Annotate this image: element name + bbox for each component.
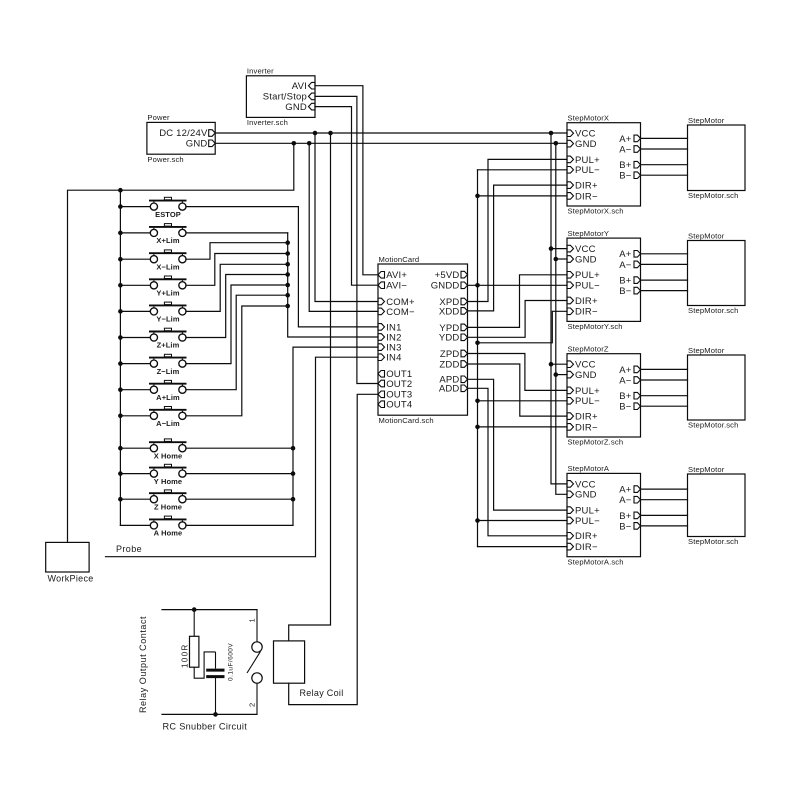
switch A−Lim	[149, 407, 187, 429]
svg-text:DIR+: DIR+	[575, 531, 598, 542]
svg-text:StepMotorZ: StepMotorZ	[568, 345, 609, 354]
svg-text:Power.sch: Power.sch	[147, 155, 183, 164]
sheet block StepMotor(A)	[688, 465, 746, 546]
sheet StepMotorX pin A−	[619, 144, 640, 155]
svg-text:DIR−: DIR−	[575, 542, 598, 553]
wire limit switches staircase to IN2	[186, 233, 378, 416]
wire Power GND rail	[215, 141, 567, 146]
svg-text:Y Home: Y Home	[154, 477, 182, 486]
capacitor 0.1uF/600V	[206, 643, 234, 715]
svg-text:StepMotorA.sch: StepMotorA.sch	[568, 557, 624, 566]
switch X+Lim	[149, 224, 187, 246]
sheet MotionCard pin COM+	[378, 297, 415, 308]
wire ZDD to Z DIR+	[468, 364, 568, 416]
svg-text:Y−Lim: Y−Lim	[156, 315, 179, 324]
sheet StepMotorZ pin PUL+	[567, 386, 600, 397]
sheet StepMotorX pin DIR−	[567, 191, 598, 202]
sheet MotionCard pin XPD	[439, 297, 467, 308]
sheet StepMotorZ pin B+	[619, 391, 640, 402]
svg-text:StepMotor: StepMotor	[688, 465, 725, 474]
switch X Home	[149, 439, 187, 461]
sheet Power pin DC 12/24V	[159, 128, 215, 139]
svg-text:DIR−: DIR−	[575, 191, 598, 202]
sheet MotionCard pin XDD	[439, 306, 468, 317]
sheet Inverter pin AVI	[292, 81, 315, 92]
svg-text:PUL−: PUL−	[575, 281, 600, 292]
wire StepMotorX phase wires A+/A-/B+/B-	[641, 138, 688, 175]
resistor 100R	[181, 610, 216, 679]
svg-text:X Home: X Home	[154, 451, 183, 460]
wire 12/24V to Relay Coil +	[289, 133, 331, 641]
svg-text:RC Snubber Circuit: RC Snubber Circuit	[163, 722, 248, 732]
sheet StepMotorZ pin A+	[619, 365, 640, 376]
svg-text:A+: A+	[619, 249, 632, 260]
sheet MotionCard pin OUT3	[378, 390, 412, 401]
sheet StepMotorA pin GND	[567, 490, 597, 501]
wire ESTOP to IN1	[186, 207, 378, 327]
sheet MotionCard pin IN1	[378, 322, 402, 333]
svg-text:PUL+: PUL+	[575, 270, 600, 281]
svg-text:X−Lim: X−Lim	[156, 262, 179, 271]
wire Relay Coil - to OUT3	[289, 394, 378, 704]
svg-text:PUL−: PUL−	[575, 516, 600, 527]
svg-text:DIR+: DIR+	[575, 412, 598, 423]
sheet StepMotorY pin PUL+	[567, 270, 600, 281]
wire COM- feed from GND	[309, 143, 378, 311]
svg-text:StepMotor: StepMotor	[688, 346, 725, 355]
svg-text:A−: A−	[619, 260, 632, 271]
svg-text:Probe: Probe	[116, 544, 142, 554]
svg-text:+5VD: +5VD	[435, 270, 460, 281]
sheet StepMotorZ pin VCC	[567, 360, 596, 371]
switch Y+Lim	[149, 276, 187, 298]
svg-text:VCC: VCC	[575, 479, 596, 490]
wire snubber bottom rail	[162, 712, 257, 717]
wire Probe to IN4	[106, 357, 379, 557]
sheet block StepMotorA	[567, 464, 641, 566]
sheet MotionCard pin ZDD	[439, 359, 467, 370]
svg-text:StepMotor.sch: StepMotor.sch	[688, 306, 739, 315]
sheet StepMotorX pin GND	[567, 139, 597, 150]
svg-text:B+: B+	[619, 391, 632, 402]
svg-text:StepMotorY.sch: StepMotorY.sch	[568, 322, 623, 331]
svg-text:AVI+: AVI+	[386, 270, 407, 281]
wire Inverter GND to MotionCard AVI-	[315, 107, 378, 286]
svg-text:GND: GND	[186, 139, 208, 150]
svg-text:ESTOP: ESTOP	[155, 210, 181, 219]
svg-text:PUL−: PUL−	[575, 165, 600, 176]
sheet StepMotorX pin DIR+	[567, 181, 598, 192]
svg-text:Z Home: Z Home	[154, 502, 182, 511]
wire StepMotorZ phase wires A+/A-/B+/B-	[641, 369, 688, 406]
svg-text:Inverter.sch: Inverter.sch	[247, 118, 288, 127]
sheet StepMotorA pin B+	[619, 511, 640, 522]
svg-text:ADD: ADD	[439, 384, 460, 395]
sheet StepMotorZ pin DIR−	[567, 422, 598, 433]
svg-text:GND: GND	[575, 254, 597, 265]
svg-text:AVI: AVI	[292, 81, 307, 92]
wire YPD to Y PUL+	[468, 275, 568, 328]
svg-text:StepMotorX: StepMotorX	[568, 114, 610, 123]
svg-text:A+: A+	[619, 365, 632, 376]
svg-text:VCC: VCC	[575, 360, 596, 371]
svg-text:A+: A+	[619, 485, 632, 496]
sheet StepMotorX pin VCC	[567, 129, 596, 140]
svg-text:StepMotor.sch: StepMotor.sch	[688, 537, 739, 546]
svg-text:1: 1	[248, 618, 257, 622]
sheet StepMotorA pin PUL−	[567, 516, 600, 527]
svg-text:GND: GND	[285, 102, 307, 113]
svg-text:WorkPiece: WorkPiece	[48, 574, 94, 584]
svg-text:Inverter: Inverter	[247, 67, 274, 76]
svg-text:ZPD: ZPD	[440, 349, 460, 360]
svg-text:PUL+: PUL+	[575, 506, 600, 517]
sheet StepMotorY pin B+	[619, 276, 640, 287]
svg-text:0.1uF/600V: 0.1uF/600V	[228, 643, 235, 681]
sheet MotionCard pin IN3	[378, 343, 402, 354]
svg-text:X+Lim: X+Lim	[156, 236, 179, 245]
sheet Inverter pin GND	[285, 102, 315, 113]
svg-text:2: 2	[248, 703, 257, 707]
sheet MotionCard pin APD	[439, 375, 467, 386]
sheet StepMotorZ pin B−	[619, 402, 640, 413]
sheet block StepMotor(X)	[688, 116, 746, 200]
sheet MotionCard pin GNDD	[431, 281, 468, 292]
svg-text:COM−: COM−	[386, 307, 415, 318]
wire XDD to X DIR+	[468, 185, 568, 311]
svg-text:B−: B−	[619, 402, 632, 413]
sheet MotionCard pin OUT2	[378, 379, 412, 390]
svg-text:DIR−: DIR−	[575, 307, 598, 318]
wire XPD to X PUL+	[468, 159, 568, 301]
sheet block StepMotorY	[567, 229, 641, 331]
svg-text:Z+Lim: Z+Lim	[157, 341, 180, 350]
svg-text:StepMotorA: StepMotorA	[568, 464, 610, 473]
wire StepMotorY phase wires A+/A-/B+/B-	[641, 254, 688, 291]
wire ADD to A DIR+	[468, 388, 568, 536]
relay coil K1	[274, 641, 344, 698]
sheet StepMotorY pin PUL−	[567, 281, 600, 292]
svg-text:A−: A−	[619, 495, 632, 506]
svg-text:PUL−: PUL−	[575, 396, 600, 407]
wire GND to switch bus / WorkPiece	[68, 143, 294, 542]
sheet StepMotorY pin A−	[619, 260, 640, 271]
svg-text:StepMotor.sch: StepMotor.sch	[688, 191, 739, 200]
switch Z Home	[149, 490, 187, 512]
svg-text:GND: GND	[575, 139, 597, 150]
sheet StepMotorX pin PUL+	[567, 155, 600, 166]
svg-text:OUT2: OUT2	[386, 379, 412, 390]
switch Z+Lim	[149, 328, 187, 350]
sheet StepMotorY pin GND	[567, 254, 597, 265]
sheet StepMotorZ pin GND	[567, 370, 597, 381]
sheet StepMotorX pin B−	[619, 171, 640, 182]
sheet StepMotorA pin A+	[619, 485, 640, 496]
wire switch common bus	[118, 190, 123, 525]
svg-text:StepMotorX.sch: StepMotorX.sch	[568, 207, 624, 216]
sheet StepMotorA pin PUL+	[567, 506, 600, 517]
svg-text:B−: B−	[619, 286, 632, 297]
sheet block StepMotorX	[567, 114, 641, 216]
wire GNDD common-cathode net	[468, 170, 568, 547]
svg-text:VCC: VCC	[575, 244, 596, 255]
svg-text:DIR+: DIR+	[575, 181, 598, 192]
svg-text:GNDD: GNDD	[431, 281, 460, 292]
sheet StepMotorY pin A+	[619, 249, 640, 260]
svg-text:A−: A−	[619, 144, 632, 155]
svg-text:StepMotor.sch: StepMotor.sch	[688, 421, 739, 430]
svg-text:OUT4: OUT4	[386, 400, 412, 411]
switch X−Lim	[149, 250, 187, 272]
sheet block StepMotor(Z)	[688, 346, 746, 430]
svg-text:DIR−: DIR−	[575, 422, 598, 433]
sheet StepMotorX pin A+	[619, 134, 640, 145]
relay output contact SW	[247, 610, 262, 715]
sheet StepMotorY pin DIR+	[567, 296, 598, 307]
sheet MotionCard pin ADD	[439, 384, 468, 395]
svg-text:B−: B−	[619, 521, 632, 532]
svg-text:A+: A+	[619, 134, 632, 145]
svg-text:B−: B−	[619, 171, 632, 182]
wire YDD to Y DIR+	[468, 301, 568, 338]
sheet block Inverter	[246, 67, 315, 127]
sheet Inverter pin Start/Stop	[263, 92, 315, 103]
sheet MotionCard pin YDD	[439, 333, 468, 344]
svg-text:B+: B+	[619, 160, 632, 171]
svg-text:AVI−: AVI−	[386, 281, 407, 292]
svg-text:PUL+: PUL+	[575, 155, 600, 166]
WorkPiece block	[46, 542, 94, 583]
svg-text:StepMotorZ.sch: StepMotorZ.sch	[568, 438, 624, 447]
sheet MotionCard pin OUT1	[378, 369, 412, 380]
wire COM+ feed from 12/24V	[315, 133, 378, 302]
svg-text:Y+Lim: Y+Lim	[156, 289, 179, 298]
wire snubber top rail	[162, 607, 257, 612]
svg-text:DIR+: DIR+	[575, 296, 598, 307]
svg-text:YDD: YDD	[439, 333, 460, 344]
svg-text:StepMotorY: StepMotorY	[568, 229, 610, 238]
svg-text:A Home: A Home	[154, 529, 183, 538]
sheet StepMotorZ pin A−	[619, 375, 640, 386]
wire switch input stubs	[120, 207, 150, 526]
sheet StepMotorZ pin PUL−	[567, 396, 600, 407]
wire Inverter Start/Stop to MotionCard OUT2	[315, 96, 378, 383]
svg-text:StepMotor: StepMotor	[688, 116, 725, 125]
sheet block StepMotor(Y)	[688, 231, 746, 315]
svg-text:A−Lim: A−Lim	[156, 419, 180, 428]
sheet MotionCard pin AVI+	[378, 270, 407, 281]
svg-text:StepMotor: StepMotor	[688, 231, 725, 240]
svg-text:PUL+: PUL+	[575, 386, 600, 397]
wire Inverter AVI to MotionCard AVI+	[315, 86, 378, 275]
switch Z−Lim	[149, 354, 187, 376]
sheet StepMotorA pin DIR−	[567, 542, 598, 553]
wire DC 12/24V rail	[215, 131, 567, 136]
switch A Home	[149, 516, 187, 538]
sheet StepMotorZ pin DIR+	[567, 412, 598, 423]
sheet MotionCard pin YPD	[439, 323, 467, 334]
sheet MotionCard pin IN4	[378, 353, 402, 364]
sheet StepMotorX pin B+	[619, 160, 640, 171]
wire ZPD to Z PUL+	[468, 354, 568, 391]
switch Y Home	[149, 464, 187, 486]
svg-text:A+Lim: A+Lim	[156, 393, 180, 402]
switch ESTOP	[149, 197, 187, 219]
sheet MotionCard pin IN2	[378, 332, 402, 343]
sheet StepMotorA pin VCC	[567, 479, 596, 490]
sheet MotionCard pin AVI−	[378, 281, 407, 292]
sheet block MotionCard	[378, 255, 468, 425]
sheet MotionCard pin +5VD	[435, 270, 468, 281]
sheet block Power	[147, 113, 215, 164]
wire GND bus to driver GND pins	[554, 143, 568, 494]
svg-text:A−: A−	[619, 375, 632, 386]
svg-text:GND: GND	[575, 370, 597, 381]
sheet MotionCard pin OUT4	[378, 400, 412, 411]
wire home switches bus to IN3	[186, 347, 378, 525]
svg-text:B+: B+	[619, 276, 632, 287]
svg-text:Relay Coil: Relay Coil	[300, 688, 344, 698]
svg-text:Relay Output Contact: Relay Output Contact	[138, 616, 148, 713]
svg-text:100R: 100R	[181, 643, 190, 668]
wire APD to A PUL+	[468, 379, 568, 510]
sheet StepMotorY pin DIR−	[567, 307, 598, 318]
svg-text:ZDD: ZDD	[439, 359, 459, 370]
sheet StepMotorA pin B−	[619, 521, 640, 532]
sheet MotionCard pin ZPD	[440, 349, 468, 360]
sheet block StepMotorZ	[567, 345, 641, 447]
switch A+Lim	[149, 380, 187, 402]
sheet StepMotorY pin VCC	[567, 244, 596, 255]
svg-text:XDD: XDD	[439, 306, 460, 317]
switch Y−Lim	[149, 302, 187, 324]
svg-text:Z−Lim: Z−Lim	[157, 367, 180, 376]
sheet StepMotorA pin A−	[619, 495, 640, 506]
sheet StepMotorX pin PUL−	[567, 165, 600, 176]
sheet StepMotorA pin DIR+	[567, 531, 598, 542]
svg-text:MotionCard: MotionCard	[379, 255, 420, 264]
svg-text:GND: GND	[575, 490, 597, 501]
sheet MotionCard pin COM−	[378, 307, 415, 318]
svg-text:MotionCard.sch: MotionCard.sch	[379, 416, 434, 425]
sheet StepMotorY pin B−	[619, 286, 640, 297]
wire StepMotorA phase wires A+/A-/B+/B-	[641, 489, 688, 526]
sheet Power pin GND	[186, 139, 215, 150]
wire 12/24V bus to driver VCC pins	[549, 133, 567, 484]
svg-text:Power: Power	[147, 113, 170, 122]
svg-text:VCC: VCC	[575, 129, 596, 140]
svg-text:IN4: IN4	[386, 353, 401, 364]
svg-text:B+: B+	[619, 511, 632, 522]
